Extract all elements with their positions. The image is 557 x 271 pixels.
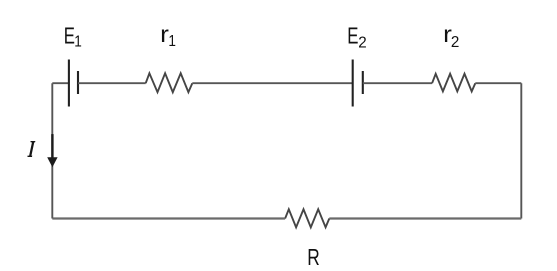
resistor R bbox=[285, 209, 329, 227]
wire E1 to r1 bbox=[78, 82, 146, 84]
svg-text:E: E bbox=[347, 24, 358, 49]
battery E1 bbox=[69, 60, 78, 107]
label r2 bbox=[443, 21, 459, 51]
resistor r2 bbox=[432, 74, 475, 92]
wire right side bbox=[520, 83, 522, 218]
wire r2 to right corner bbox=[475, 82, 521, 84]
wire E2 to r2 bbox=[363, 82, 432, 84]
svg-text:1: 1 bbox=[168, 33, 176, 50]
svg-text:r: r bbox=[160, 21, 169, 47]
label I bbox=[28, 141, 36, 157]
wire left side bbox=[51, 83, 53, 218]
label r1 bbox=[160, 21, 176, 50]
current arrow I bbox=[47, 134, 57, 167]
svg-text:R: R bbox=[307, 246, 320, 271]
resistor r1 bbox=[146, 73, 193, 92]
wire top-left stub bbox=[52, 82, 69, 84]
svg-text:1: 1 bbox=[74, 33, 82, 50]
label E1 bbox=[64, 24, 82, 51]
wire bottom right bbox=[329, 217, 521, 219]
wire r1 to E2 bbox=[192, 82, 352, 84]
battery E2 bbox=[353, 60, 363, 107]
label E2 bbox=[347, 24, 367, 51]
svg-text:2: 2 bbox=[451, 34, 459, 51]
svg-text:2: 2 bbox=[358, 34, 366, 51]
wire bottom left bbox=[52, 217, 285, 219]
svg-text:E: E bbox=[64, 24, 75, 49]
